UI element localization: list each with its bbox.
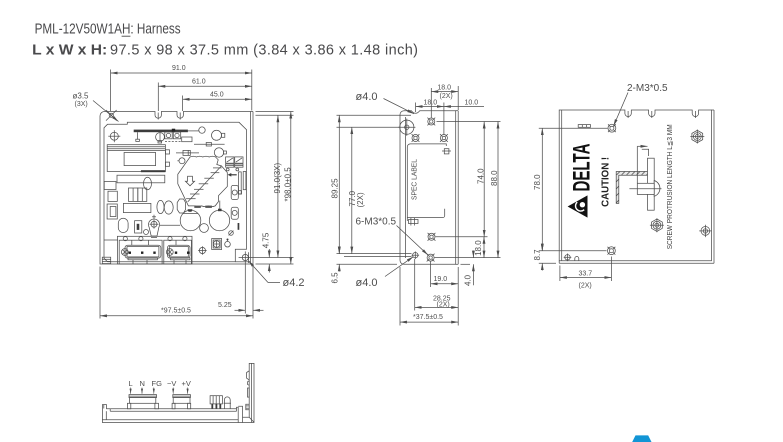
delta logo blue triangle (page bottom, clipped) (632, 435, 651, 442)
label 4.2 leader (249, 261, 269, 283)
svg-text:19.0: 19.0 (434, 276, 448, 283)
chassis tray (102, 405, 238, 423)
M3 screw hole bottom (608, 247, 616, 255)
dim 5.25 (244, 268, 246, 314)
svg-text:+V: +V (182, 379, 191, 388)
svg-text:L x W x H:: L x W x H: (32, 43, 107, 59)
dim 61.0 (157, 83, 159, 112)
pot with phillips (212, 239, 222, 250)
svg-text:ø4.2: ø4.2 (283, 277, 305, 289)
terminal area outer box (117, 236, 192, 264)
hollow down arrow on heatsink (185, 176, 194, 186)
notch pins (627, 111, 629, 118)
slash circle (229, 231, 234, 236)
78.0 dim (539, 127, 608, 129)
bottom-right flange tab + hole ø4.2 (235, 261, 250, 263)
svg-text:*97.5±0.5: *97.5±0.5 (161, 308, 191, 315)
screw holes (X style) (427, 118, 435, 126)
svg-text:74.0: 74.0 (476, 168, 485, 184)
label leader arrows (131, 388, 188, 394)
inner flange line (405, 117, 407, 258)
arrow component right (231, 174, 237, 176)
left column parts (104, 182, 116, 190)
left edge comb connector (102, 257, 110, 263)
vertical bar right (239, 172, 242, 194)
svg-text:−V: −V (167, 379, 176, 388)
jumper (135, 221, 142, 233)
circle component (199, 127, 205, 133)
bottom notch (575, 257, 579, 261)
plain cross hole bottom right (699, 225, 711, 237)
panel features (247, 371, 250, 380)
relay block top right (226, 157, 234, 163)
cap with tab (212, 130, 222, 140)
svg-text:10.0: 10.0 (465, 100, 479, 107)
svg-text:97.5 x 98 x 37.5 mm (3.84 x 3.: 97.5 x 98 x 37.5 mm (3.84 x 3.86 x 1.48 … (110, 43, 418, 59)
33.7 dim (559, 266, 561, 282)
diode (176, 152, 199, 154)
right dims (437, 121, 501, 123)
clip right (442, 149, 451, 154)
relay side (210, 396, 222, 404)
svg-text:45.0: 45.0 (210, 92, 224, 99)
svg-text:PML-12V50W1AH: Harness: PML-12V50W1AH: Harness (35, 22, 181, 38)
svg-text:88.0: 88.0 (490, 170, 499, 186)
svg-text:(3X): (3X) (75, 101, 88, 108)
svg-text:DELTA: DELTA (568, 144, 595, 192)
svg-text:ø4.0: ø4.0 (356, 91, 378, 103)
terminal block 2 side (173, 395, 191, 398)
M3 screw hole top (608, 124, 616, 132)
rounded rects with circles right (231, 185, 238, 199)
svg-text:CAUTION !: CAUTION ! (600, 157, 612, 207)
svg-text:ø4.0: ø4.0 (356, 277, 378, 289)
svg-text:*98.0±0.5: *98.0±0.5 (284, 167, 293, 202)
hex nut hole right top (690, 130, 704, 144)
heatsink bottom hatch strips (194, 206, 201, 208)
svg-text:N: N (140, 379, 145, 388)
dim 97.5 (99, 267, 101, 319)
big cap 1 (180, 210, 201, 231)
svg-text:5.25: 5.25 (218, 302, 232, 309)
right panel (243, 363, 255, 422)
crosshair 2 (198, 246, 207, 255)
pcb outline (104, 122, 247, 261)
svg-text:(2X): (2X) (356, 192, 365, 207)
8.7 dim (539, 262, 556, 264)
wide rect (123, 203, 150, 212)
terminal block 1 (119, 240, 162, 264)
svg-text:8.7: 8.7 (533, 249, 542, 261)
screw illustration (616, 146, 661, 210)
svg-text:ø3.5: ø3.5 (73, 92, 90, 101)
svg-text:6.5: 6.5 (331, 272, 340, 284)
terminal block 2 (164, 240, 192, 264)
bottom dims (430, 262, 432, 288)
svg-text:SCREW PROTRUSION LENGTH L≦3 M: SCREW PROTRUSION LENGTH L≦3 MM (667, 124, 674, 249)
svg-text:91.0: 91.0 (172, 65, 186, 72)
small circle (144, 230, 149, 235)
cap with tab 2 (214, 148, 223, 157)
small circle left of heatsink (179, 158, 185, 164)
wire to cap (160, 224, 180, 226)
svg-text:4.0: 4.0 (463, 274, 472, 286)
electrolytic with line (156, 133, 165, 142)
svg-text:2-M3*0.5: 2-M3*0.5 (627, 83, 668, 94)
ellipse caps (144, 177, 152, 190)
small circle between caps (200, 224, 209, 233)
svg-text:18.0: 18.0 (437, 84, 451, 91)
twin caps mid (129, 188, 138, 201)
resistor row (194, 143, 225, 145)
svg-text:(2X): (2X) (440, 93, 453, 100)
underline under H (122, 35, 131, 37)
chassis outline (100, 112, 251, 265)
svg-text:4.75: 4.75 (262, 232, 271, 248)
svg-text:78.0: 78.0 (533, 174, 542, 190)
chassis inner right edge (252, 112, 254, 265)
led side (224, 397, 230, 409)
svg-text:(2X): (2X) (437, 301, 450, 308)
trimmer (148, 219, 159, 236)
svg-text:L: L (129, 379, 133, 388)
hex nut hole center bottom (650, 218, 664, 232)
crosshair target pcb (108, 130, 120, 142)
svg-text:FG: FG (152, 379, 163, 388)
big cap 2 (209, 210, 229, 230)
small rect (182, 137, 192, 142)
delta logo triangle (568, 195, 588, 217)
dark bar right of cap2 (238, 223, 240, 230)
svg-text:6-M3*0.5: 6-M3*0.5 (356, 217, 397, 228)
6.5 dim (338, 247, 340, 254)
notch pins on top edge (157, 113, 159, 120)
top dims (430, 88, 432, 118)
dim 91.0 top (110, 70, 112, 112)
svg-text:*37.5±0.5: *37.5±0.5 (413, 314, 443, 321)
pcb lines (110, 408, 236, 410)
big mount hole (398, 119, 415, 136)
svg-text:91.0(3X): 91.0(3X) (273, 162, 282, 193)
svg-text:61.0: 61.0 (192, 79, 206, 86)
heatsink (178, 156, 228, 206)
svg-text:SPEC LABEL: SPEC LABEL (410, 159, 419, 200)
terminal block 1 side (129, 395, 157, 398)
transformer (107, 145, 165, 172)
busbar (134, 130, 188, 133)
clip bottom-left (409, 218, 419, 226)
corner mount hole top-left (X target) (106, 110, 117, 121)
svg-text:89.25: 89.25 (331, 178, 340, 199)
plain hole bottom-left (412, 251, 420, 259)
outline with top-left notch (400, 111, 456, 265)
spec label rect (407, 144, 446, 221)
right dims (256, 114, 294, 116)
left dims (337, 114, 412, 116)
two relay squares (165, 132, 172, 139)
svg-text:33.7: 33.7 (579, 271, 593, 278)
svg-text:(2X): (2X) (579, 283, 592, 290)
rect below transformer (117, 175, 165, 183)
octagon inductor (177, 199, 185, 213)
svg-text:18.0: 18.0 (424, 100, 438, 107)
dim 4.75 (268, 249, 270, 258)
outline with three top notches (559, 110, 711, 261)
dim 45.0 (182, 96, 184, 112)
corner hole bottom-left (564, 254, 572, 262)
circle with stem (225, 241, 231, 247)
svg-text:18.0: 18.0 (474, 240, 483, 256)
vent slots (578, 125, 590, 128)
